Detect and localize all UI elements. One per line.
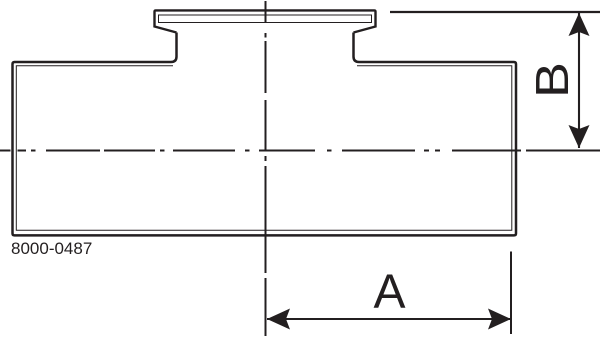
dimension A extension line (right) (510, 252, 512, 335)
ferrule flange inner groove (159, 15, 372, 23)
ferrule flange outer (155, 10, 376, 32)
arrowhead B top (569, 13, 590, 36)
arrowhead A right (488, 309, 511, 330)
dimension A line (267, 318, 511, 320)
body inner wall line (16, 66, 512, 231)
dimension B line (578, 13, 580, 148)
body outline (tee run) (13, 33, 517, 236)
arrowhead B bottom (569, 125, 590, 148)
svg-text:A: A (373, 266, 405, 319)
svg-text:B: B (526, 62, 578, 98)
arrowhead A left (267, 309, 290, 330)
vertical centerline (265, 1, 267, 336)
dimension B extension line (top) (390, 11, 600, 13)
svg-text:8000-0487: 8000-0487 (11, 239, 92, 258)
horizontal centerline (0, 150, 600, 152)
